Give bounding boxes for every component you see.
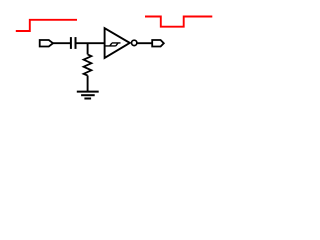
wire: bubble to output port xyxy=(138,42,153,44)
ground xyxy=(77,91,99,93)
capacitor C1 xyxy=(70,37,72,49)
node: T junction to resistor xyxy=(87,43,89,54)
output port OUT xyxy=(152,40,164,47)
input port IN xyxy=(40,40,53,47)
hysteresis symbol inside U1 xyxy=(105,43,120,46)
wire: input port to capacitor xyxy=(53,42,70,44)
output waveform (red negative pulse) xyxy=(145,17,212,27)
input waveform (red step-up pulse) xyxy=(16,20,77,31)
inverter U1 (Schmitt trigger) triangle xyxy=(105,28,130,58)
wire: capacitor to inverter input xyxy=(77,42,105,44)
wire: resistor to ground xyxy=(87,76,89,92)
inverting bubble on U1 output xyxy=(132,40,137,45)
resistor R1 xyxy=(84,54,92,75)
